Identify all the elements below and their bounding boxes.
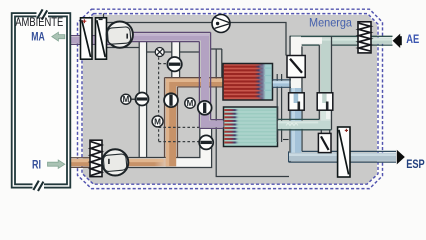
damper Dp (open, purple riser) xyxy=(198,101,212,115)
partition line with compressor xyxy=(104,14,287,56)
AE damper box (box with diagonal) xyxy=(287,56,305,78)
AE inlet louvre filter (zigzag) xyxy=(358,22,371,53)
AE arrow xyxy=(393,34,401,48)
condenser coil xyxy=(223,64,273,101)
dashed actuator linkage lines xyxy=(159,57,200,141)
RI inlet louvre filter (zigzag) xyxy=(90,140,102,176)
orange supply riser and top run to condenser xyxy=(165,78,225,167)
filter F2 (supply filter with -) xyxy=(96,18,107,59)
sensor (circle with X) xyxy=(155,48,164,57)
inner frame line left of heat exchangers xyxy=(216,50,289,177)
MA arrow xyxy=(52,32,65,41)
sensor line across supply section xyxy=(147,51,199,53)
room (AMBIENTE) box xyxy=(12,13,71,188)
damper D5 (closed, bypass riser) xyxy=(199,135,213,149)
ESP exhaust pipe (blue-grey) xyxy=(289,151,396,162)
unit housing interior (grey) xyxy=(83,15,377,184)
damper D4 (closed, upper white duct) xyxy=(167,57,181,71)
svg-text:AMBIENTE: AMBIENTE xyxy=(15,16,63,29)
filter F1 (supply filter with red +) xyxy=(81,18,93,59)
unit housing inner dashed border xyxy=(82,14,378,185)
wall break (top) xyxy=(37,9,49,19)
return fan (bottom) xyxy=(102,149,128,175)
RI return-air pipe (orange) xyxy=(63,158,177,168)
right sage duct (AE tee down) xyxy=(319,36,331,93)
refrigerant line pair below condenser outlet xyxy=(277,74,281,142)
actuator M3 xyxy=(152,116,163,127)
damper D3 (open, orange riser) xyxy=(164,93,178,107)
svg-text:M: M xyxy=(187,99,194,108)
wall break (bottom) xyxy=(33,181,45,191)
damper D2 (closed, duct A) xyxy=(136,93,149,106)
left white duct from AE elbow down (walls) xyxy=(290,36,302,162)
ESP damper box (box with diagonal) xyxy=(318,133,331,152)
supply fan (top) xyxy=(107,21,133,47)
drain line near exhaust elbow xyxy=(283,139,289,141)
actuator M1 xyxy=(121,94,135,104)
svg-text:MA: MA xyxy=(31,30,45,44)
purple supply duct: top band, right riser, elbow into evaporator xyxy=(131,32,224,128)
walls between teal elbow and ESP damper box xyxy=(321,130,329,134)
white duct B (upper vertical duct above orange elbow) xyxy=(172,42,180,78)
white duct A (left vertical duct in recirculation section) xyxy=(139,42,146,158)
frame step line near condenser xyxy=(211,49,223,77)
left duct damper box (valve) xyxy=(289,93,305,110)
condenser outlet pipe (blue, to right duct) xyxy=(273,80,298,88)
bottom white duct and bypass riser xyxy=(129,128,212,167)
svg-text:M: M xyxy=(154,117,161,126)
RI arrow xyxy=(48,160,65,168)
svg-text:Menerga: Menerga xyxy=(309,16,352,30)
evaporator coil xyxy=(224,107,278,147)
AE outside-air horizontal duct and pipes xyxy=(290,36,393,45)
filter F3 (exhaust filter with +) xyxy=(338,127,350,177)
unit housing outer dashed border xyxy=(78,9,383,188)
blue fill descending in left duct xyxy=(291,88,302,161)
actuator M2 xyxy=(185,98,195,108)
right duct damper box (valve) xyxy=(317,93,333,110)
svg-text:RI: RI xyxy=(32,158,41,172)
svg-text:AE: AE xyxy=(406,32,419,46)
svg-text:ESP: ESP xyxy=(406,157,425,171)
evaporator outlet pipe (teal) and elbow up to right duct xyxy=(278,110,332,130)
MA supply pipe to room (purple, at filters) xyxy=(70,36,111,45)
ESP arrow xyxy=(397,150,405,165)
svg-text:M: M xyxy=(123,95,130,104)
compressor xyxy=(212,15,230,33)
